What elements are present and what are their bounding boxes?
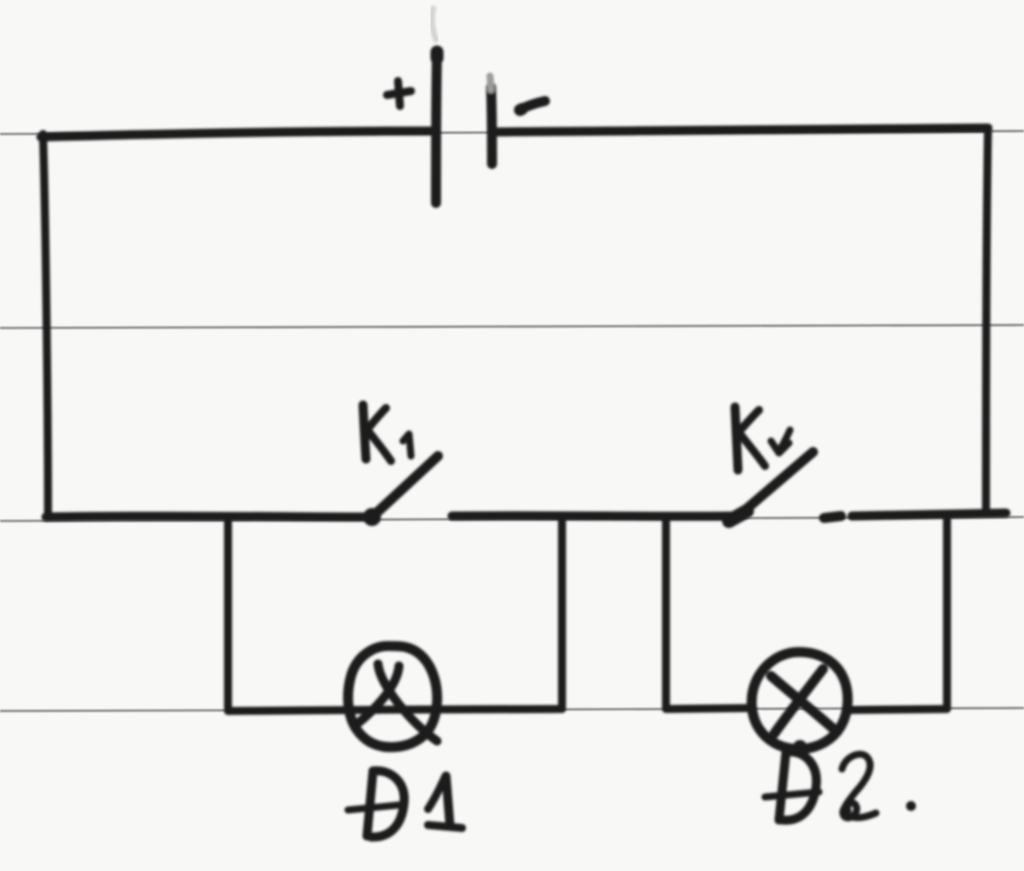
lamp D2 circle — [752, 652, 848, 749]
wire branch1 left vertical — [224, 518, 232, 709]
wire branch2 right vertical — [943, 517, 951, 708]
label D1 — [367, 771, 373, 836]
faint smudge above battery — [432, 6, 437, 42]
battery B1 short plate (-) — [491, 87, 492, 164]
wire bus middle — [452, 511, 736, 521]
plus label — [387, 91, 411, 95]
wire left vertical — [43, 134, 48, 515]
switch K1 blade — [371, 456, 438, 518]
switch K1 pivot — [363, 508, 381, 526]
wire branch2 left vertical — [662, 519, 670, 708]
wire bus right — [852, 513, 1006, 516]
battery B1 long plate (+) — [436, 52, 437, 203]
ruled line 3 — [0, 517, 1024, 521]
wire bus left — [46, 512, 368, 522]
ruled line 2 — [0, 325, 1024, 328]
wire branch2 bottom-left — [666, 708, 753, 709]
wire branch2 bottom-right — [851, 709, 947, 710]
ruled line 1 — [0, 131, 1024, 134]
lamp D1 circle — [348, 646, 437, 747]
switch K2 pivot — [729, 511, 747, 521]
label K1 — [363, 405, 366, 459]
lamp D1 X — [378, 664, 437, 741]
wire right vertical — [986, 129, 988, 513]
label D2 — [779, 752, 786, 820]
wire dash right of K2 — [824, 516, 841, 518]
ruled line 4 — [0, 708, 1024, 711]
label K2 — [735, 407, 738, 470]
period — [906, 801, 916, 811]
wire top-left — [41, 131, 434, 137]
wire branch1 right vertical — [558, 518, 566, 708]
lamp D2 X — [771, 676, 837, 732]
wire branch1 bottom — [228, 709, 562, 711]
switch K2 blade — [737, 452, 813, 517]
wire top-right — [492, 128, 988, 132]
minus label — [519, 101, 545, 110]
